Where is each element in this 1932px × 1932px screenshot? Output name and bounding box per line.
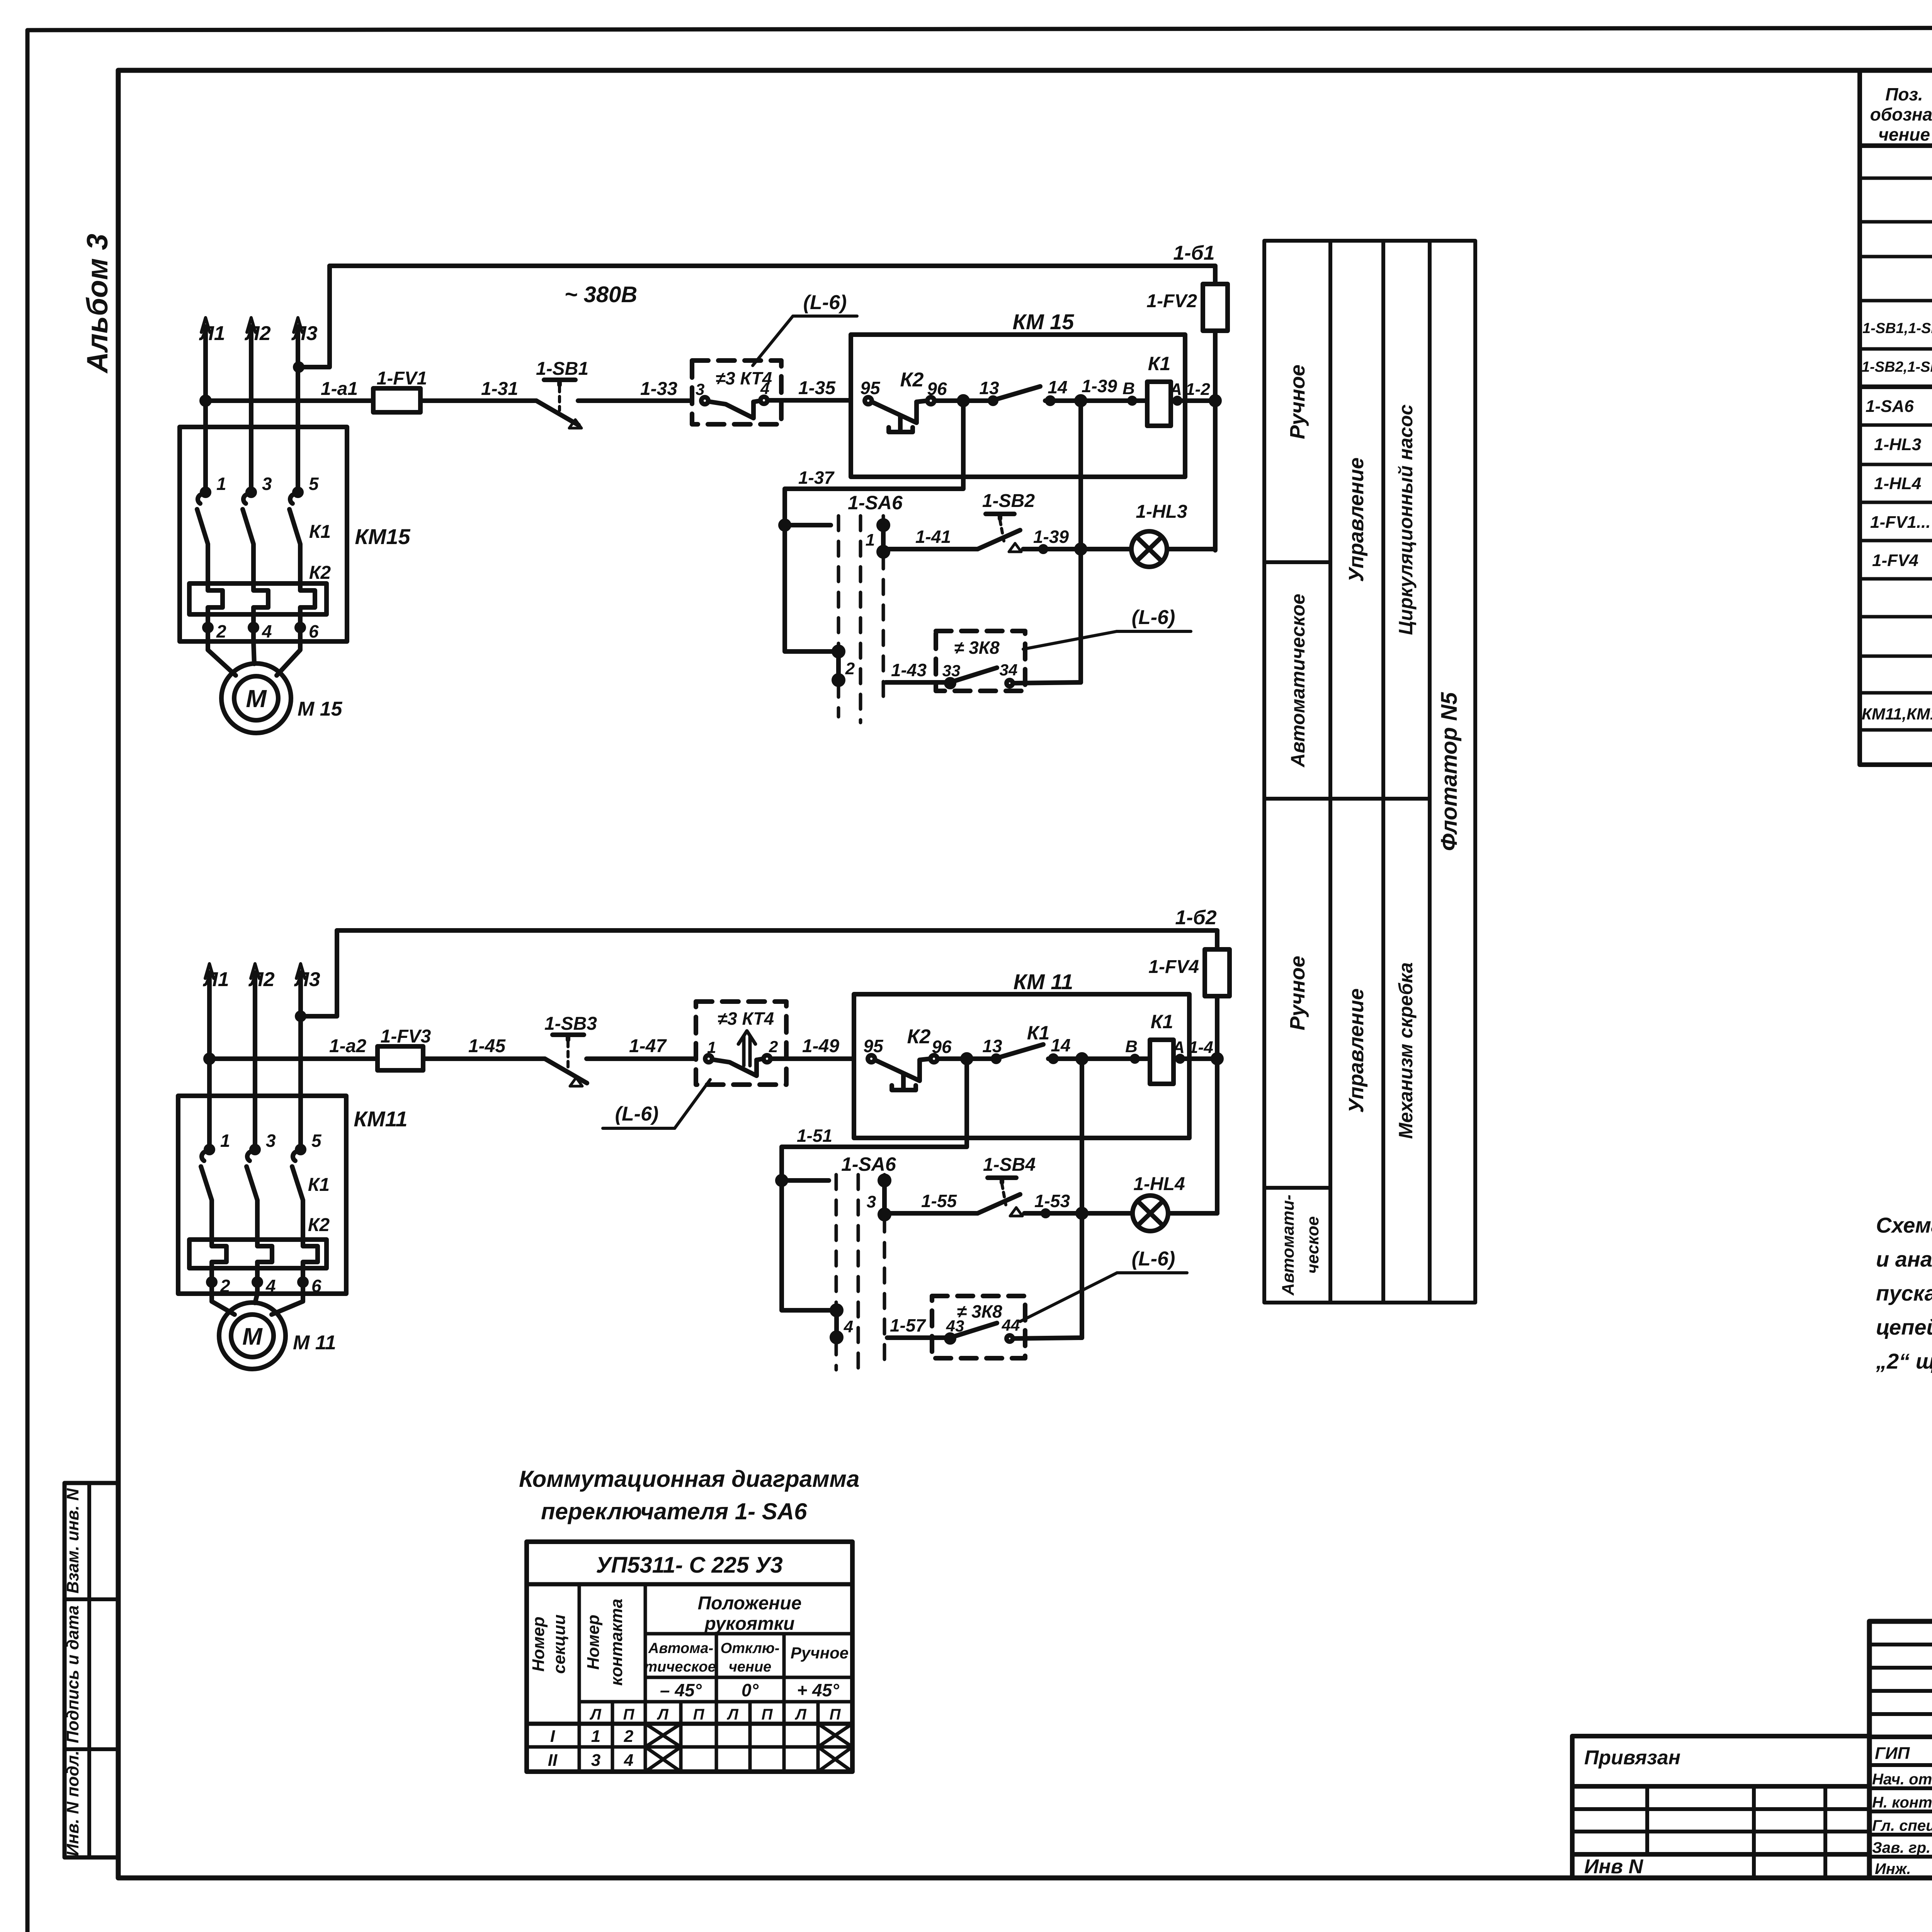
svg-text:А: А (1169, 380, 1182, 399)
main contact pole 5-6 bottom (292, 1146, 304, 1240)
header УП5311-С225У3 (596, 1553, 783, 1578)
label 13 (979, 378, 999, 398)
svg-text:1-4: 1-4 (1189, 1038, 1213, 1057)
label Л2 bottom (248, 968, 275, 991)
svg-text:Ручное: Ручное (1286, 364, 1309, 439)
label 1-33 (640, 379, 677, 399)
svg-text:II: II (548, 1751, 558, 1770)
pole output wires to terminals 2 4 6 (204, 614, 304, 641)
title block main outline (1869, 1621, 1932, 1878)
row 1-HL4 (1874, 471, 1932, 495)
svg-text:Л1: Л1 (199, 322, 225, 345)
comm table grid (527, 1542, 852, 1772)
svg-text:1: 1 (866, 531, 875, 549)
label Циркуляционный насос (1395, 404, 1417, 635)
contact SA6-4 (832, 1306, 841, 1342)
label 1-FV2 (1146, 291, 1197, 311)
role Н контр (1872, 1794, 1932, 1811)
node junction 1-51 drop (963, 1054, 971, 1063)
row 1-FV1 (1870, 509, 1932, 533)
svg-text:М 11: М 11 (293, 1332, 336, 1354)
X mark row II auto (645, 1747, 681, 1772)
svg-text:95: 95 (863, 1036, 884, 1056)
svg-text:Л2: Л2 (248, 968, 275, 991)
svg-text:Инв. N подл.: Инв. N подл. (63, 1750, 82, 1856)
wire 1-51 from box to switch (782, 1059, 967, 1310)
svg-text:14: 14 (1048, 377, 1067, 397)
contact 3K8 dashed box (top) (936, 631, 1025, 691)
pin 5 label (309, 474, 319, 494)
svg-text:13: 13 (982, 1036, 1002, 1056)
svg-text:КМ15: КМ15 (355, 524, 410, 549)
svg-text:чение: чение (1878, 124, 1930, 145)
svg-text:≠3 КТ4: ≠3 КТ4 (718, 1009, 774, 1029)
comm diagram title (519, 1466, 859, 1524)
label Автоматическое (top) (1287, 594, 1309, 768)
fuse 1-FU3 (378, 1046, 534, 1070)
label 1-39 top (1082, 376, 1117, 396)
svg-text:Привязан: Привязан (1584, 1747, 1680, 1769)
svg-text:КМ 15: КМ 15 (1013, 310, 1075, 334)
header -45 (660, 1680, 702, 1700)
header 0 (742, 1680, 759, 1700)
wire 1-41 (883, 549, 978, 552)
NOTE_START (1876, 1213, 1932, 1373)
svg-text:3: 3 (262, 474, 272, 494)
header Ручное (791, 1644, 849, 1662)
svg-text:1-SА6: 1-SА6 (1866, 397, 1914, 416)
svg-text:КМ11: КМ11 (354, 1107, 407, 1131)
label Инв. N подл. (63, 1750, 82, 1856)
pin 2 kt4 (769, 1037, 778, 1056)
svg-text:Л2: Л2 (244, 322, 271, 345)
label 1-SB2 (982, 491, 1035, 511)
node L1 phase line (bottom) (205, 964, 214, 1150)
switch 1-SA6 shaft (bottom) (836, 1175, 884, 1376)
fuse 1-FU2 on right rail (1203, 266, 1228, 550)
fuse 1-FU4 on right rail (1205, 930, 1230, 1213)
label К2 power bottom (308, 1215, 330, 1235)
svg-text:1: 1 (220, 1131, 230, 1151)
pin 4 (760, 379, 769, 398)
contactor KM15 power box (180, 427, 347, 641)
label Автомати-ческое (bottom) (1279, 1195, 1322, 1296)
svg-text:А: А (1172, 1038, 1185, 1057)
svg-text:В: В (1122, 379, 1135, 398)
label Флотатор N5 (1437, 692, 1462, 851)
node stub on 1-51 (777, 1176, 829, 1185)
wire 1-43 (886, 680, 947, 685)
label 1-45 (468, 1036, 506, 1056)
pin 6 label (309, 621, 319, 641)
svg-text:1-49: 1-49 (802, 1036, 839, 1056)
svg-text:ГИП: ГИП (1875, 1744, 1910, 1763)
svg-text:П: П (693, 1706, 705, 1723)
svg-text:Нач. отд.: Нач. отд. (1872, 1771, 1932, 1788)
row II data (548, 1751, 633, 1770)
svg-text:1: 1 (591, 1727, 600, 1746)
label Управление (top) (1345, 457, 1368, 582)
label ~380В (565, 282, 638, 307)
label 14 (1048, 377, 1067, 397)
label К2 power (309, 563, 331, 583)
label 1-2 (1185, 380, 1210, 399)
svg-text:К1: К1 (309, 522, 331, 542)
main contact pole 3-4 bottom (247, 1146, 259, 1240)
svg-text:1-47: 1-47 (629, 1036, 667, 1056)
main contact pole 3-4 (243, 489, 255, 583)
motor M15 (221, 663, 291, 733)
svg-text:1-HL3: 1-HL3 (1136, 502, 1187, 522)
role ГИП (1875, 1744, 1910, 1763)
svg-text:П: П (830, 1706, 841, 1723)
node L2 phase line (bottom) (251, 964, 259, 1150)
label Ручное (top) (1286, 364, 1309, 439)
pin 1 kt4 (707, 1038, 716, 1056)
svg-text:1-2: 1-2 (1185, 380, 1210, 399)
label 1-43 (891, 660, 927, 680)
svg-text:13: 13 (979, 378, 999, 398)
svg-text:Номер: Номер (584, 1615, 603, 1670)
svg-text:М 15: М 15 (298, 698, 343, 720)
note text line 2 (1876, 1247, 1932, 1271)
label #3КТ4 bottom (718, 1009, 774, 1029)
svg-text:1-HL4: 1-HL4 (1874, 474, 1921, 493)
header Автоматическое (644, 1640, 716, 1675)
svg-text:Положение: Положение (698, 1593, 802, 1614)
svg-text:Инж.: Инж. (1875, 1861, 1911, 1878)
svg-text:5: 5 (309, 474, 319, 494)
label Л2 (244, 322, 271, 345)
contact K8 33-34 (946, 668, 1081, 687)
svg-text:Л: Л (589, 1706, 602, 1723)
contact K1 13-14 (990, 386, 1147, 404)
svg-text:Автома-: Автома- (648, 1640, 713, 1656)
TITLEBLOCK_START (1572, 1621, 1932, 1932)
label К1 over blade (1027, 1022, 1050, 1044)
svg-text:1-FV1: 1-FV1 (377, 368, 427, 389)
svg-text:тическое: тическое (644, 1659, 716, 1675)
label 1-FV3 (381, 1026, 431, 1047)
svg-text:1-SB2,1-SB4: 1-SB2,1-SB4 (1862, 359, 1932, 375)
node L3 phase line (294, 318, 302, 492)
node right rail junction (1211, 396, 1219, 405)
X mark row I manual (818, 1724, 852, 1747)
row 1-SA6 (1866, 392, 1932, 417)
node L3 phase line (bottom) (296, 964, 305, 1150)
time arrow symbol (738, 1031, 755, 1066)
label (L-6) kt4 top (803, 291, 847, 314)
label (L-6) k8 top (1132, 606, 1175, 629)
label #3К8 bottom (957, 1301, 1002, 1321)
contact KT4 blade (top) (701, 397, 851, 418)
label Альбом 3 (81, 234, 114, 374)
label 1-35 (798, 378, 836, 398)
row 1-FV4 (1872, 549, 1932, 572)
label 1-47 (629, 1036, 667, 1056)
label М motor bottom (242, 1323, 263, 1350)
svg-text:1-а1: 1-а1 (321, 379, 358, 399)
svg-text:1-SА6: 1-SА6 (848, 492, 903, 514)
svg-text:Схема управления выполнена: Схема управления выполнена для одного фл… (1876, 1213, 1932, 1237)
label В (1122, 379, 1135, 398)
label 1-б1 (1173, 242, 1214, 264)
svg-text:2: 2 (216, 621, 226, 641)
label КМ15 (1013, 310, 1075, 334)
svg-text:Л1: Л1 (202, 968, 229, 991)
svg-text:Номер: Номер (529, 1617, 548, 1672)
TOPCIRCUIT_START (180, 242, 1228, 733)
label 1-HL4 (1133, 1174, 1185, 1194)
pin 44 (1002, 1316, 1020, 1334)
node lamp rail junction (bottom) (1078, 1054, 1086, 1063)
node junction 1-37 drop (959, 396, 968, 405)
label 1-SА6 bottom (841, 1153, 896, 1175)
label 1-57 (890, 1315, 926, 1335)
svg-text:Гл. спец.: Гл. спец. (1872, 1817, 1932, 1834)
pointer L-6 to KT4 (bottom) (603, 1080, 710, 1128)
role Инж (1875, 1861, 1911, 1878)
svg-text:3: 3 (266, 1131, 276, 1151)
svg-text:6: 6 (309, 621, 319, 641)
label (L-6) kt4 bottom (615, 1103, 659, 1125)
lamp 1-HL4 (1133, 1196, 1217, 1231)
svg-text:1-33: 1-33 (640, 379, 677, 399)
wire 1-37 from box to switch (785, 401, 963, 651)
svg-text:Н. контр.: Н. контр. (1872, 1794, 1932, 1811)
svg-text:К1: К1 (1148, 353, 1171, 374)
svg-text:Управление: Управление (1345, 988, 1368, 1113)
pin 4 label (262, 621, 272, 641)
pin 3 (696, 380, 704, 398)
label #3КТ4 (716, 368, 772, 388)
wire jog from bus to L3 (295, 266, 330, 371)
svg-text:3: 3 (591, 1751, 600, 1770)
svg-text:4: 4 (265, 1276, 276, 1296)
label 1-37 (798, 468, 835, 488)
svg-text:34: 34 (1000, 661, 1018, 679)
svg-text:Л3: Л3 (291, 322, 318, 345)
note text line 3 (1876, 1281, 1932, 1305)
contact K8 43-44 (946, 1323, 1082, 1342)
svg-text:1-41: 1-41 (915, 527, 951, 547)
label 1-SА6 (848, 492, 903, 514)
contact SA6-2 (834, 647, 843, 685)
svg-text:33: 33 (942, 662, 961, 680)
label 1-SB3 (544, 1014, 597, 1034)
svg-text:Ручное: Ручное (791, 1644, 849, 1662)
label 1-55 (921, 1191, 957, 1211)
contact SA6-3 (880, 1176, 889, 1219)
row 1-HL3 (1874, 430, 1932, 456)
label К2 bottom (907, 1026, 931, 1048)
fuse 1-FU1 (373, 388, 526, 412)
thermal overload block bottom (189, 1240, 327, 1268)
contactor KM11 control box (854, 994, 1189, 1138)
note text line 4 (1876, 1315, 1932, 1339)
svg-text:95: 95 (860, 378, 881, 398)
pin 2 (845, 659, 855, 678)
svg-text:1-43: 1-43 (891, 660, 927, 680)
pushbutton 1-SB2 (978, 514, 1081, 552)
svg-text:I: I (550, 1727, 555, 1746)
svg-text:Управление: Управление (1345, 457, 1368, 582)
pin 3 label (262, 474, 272, 494)
label 1-51 (797, 1126, 832, 1146)
svg-text:2: 2 (845, 659, 855, 678)
pointer L-6 to KT4 (top) (753, 316, 857, 366)
svg-text:Подпись и дата: Подпись и дата (63, 1605, 82, 1743)
svg-text:1-SB2: 1-SB2 (982, 491, 1035, 511)
node lamp line junction (bottom) (1078, 1209, 1133, 1218)
pin 2 label (216, 621, 226, 641)
BOTCIRCUIT_START (178, 906, 1230, 1376)
svg-text:М: М (242, 1323, 263, 1350)
svg-text:1-SB1,1-SB3: 1-SB1,1-SB3 (1862, 320, 1932, 337)
wire 1-b2 top bus (337, 928, 1217, 933)
svg-text:Инв N: Инв N (1584, 1855, 1644, 1878)
motor feed wires (208, 641, 300, 675)
pin 34 (1000, 661, 1018, 679)
svg-text:~ 380В: ~ 380В (565, 282, 638, 307)
label 95 bottom (863, 1036, 884, 1056)
svg-text:Зав. гр.: Зав. гр. (1872, 1839, 1930, 1856)
svg-text:цепей и обозначения аппарат: цепей и обозначения аппаратуры индекс „1… (1876, 1315, 1932, 1339)
label КМ11 (1014, 969, 1073, 994)
wire 1-55 (884, 1213, 978, 1214)
svg-text:К2: К2 (309, 563, 331, 583)
svg-text:переключателя 1- SА6: переключателя 1- SА6 (541, 1498, 807, 1524)
label Инв N (1584, 1855, 1644, 1878)
svg-text:14: 14 (1051, 1035, 1070, 1055)
label М motor top (246, 685, 267, 713)
svg-text:Ручное: Ручное (1286, 956, 1309, 1030)
svg-text:„2“ щита АS2 на АS3: „2“ щита АS2 на АS3 (1876, 1349, 1932, 1373)
node L1 phase line (201, 318, 210, 492)
svg-text:1-HL3: 1-HL3 (1874, 435, 1921, 454)
svg-text:1-FV2: 1-FV2 (1146, 291, 1197, 311)
contact K2 95-96 with reset head (bottom) (868, 1055, 994, 1090)
mode table grid (1264, 241, 1475, 1303)
svg-text:1-45: 1-45 (468, 1036, 506, 1056)
svg-text:1-51: 1-51 (797, 1126, 832, 1146)
svg-text:1-35: 1-35 (798, 378, 836, 398)
svg-text:2: 2 (624, 1727, 634, 1746)
svg-text:Л: Л (794, 1706, 807, 1723)
label К1 power (309, 522, 331, 542)
COMMTABLE_START (519, 1466, 859, 1772)
label А bottom (1172, 1038, 1185, 1057)
role Нач отд (1872, 1771, 1932, 1788)
role Зав гр (1872, 1839, 1930, 1856)
wire control main line (202, 397, 373, 405)
label К2 (900, 369, 924, 391)
label 14 bottom (1051, 1035, 1070, 1055)
svg-text:1-57: 1-57 (890, 1315, 926, 1335)
node stub on 1-37 (781, 521, 831, 529)
svg-text:К2: К2 (900, 369, 924, 391)
svg-text:Коммутационная диаграмма: Коммутационная диаграмма (519, 1466, 859, 1492)
pushbutton 1-SB4 (978, 1178, 1082, 1216)
header Положение рукоятки (698, 1593, 802, 1634)
pin 33 (942, 662, 961, 680)
label К1 power bottom (308, 1175, 330, 1195)
svg-text:(L-6): (L-6) (1132, 1248, 1175, 1270)
svg-text:и аналогична для другого с: и аналогична для другого с заменой обозн… (1876, 1247, 1932, 1271)
contact 3K8 dashed box (bottom) (932, 1296, 1025, 1358)
label 1-HL3 (1136, 502, 1187, 522)
label Л3 (291, 322, 318, 345)
header Номер секции (529, 1614, 569, 1674)
X mark row II manual (818, 1747, 852, 1772)
motor feed wires bottom (212, 1294, 303, 1315)
svg-text:ческое: ческое (1303, 1216, 1322, 1274)
svg-text:1-FV1...: 1-FV1... (1870, 513, 1931, 532)
contact K1 13-14 (bottom) (993, 1044, 1150, 1062)
svg-text:пускателей с 11 на 16 и с: пускателей с 11 на 16 и с 15 на 20, в ма… (1876, 1281, 1932, 1305)
svg-text:4: 4 (262, 621, 272, 641)
svg-text:1-а2: 1-а2 (329, 1036, 366, 1056)
pushbutton 1-SB1 (526, 380, 692, 428)
label 1-SB1 (536, 359, 588, 379)
svg-text:2: 2 (769, 1037, 778, 1056)
pin 4 label bottom (265, 1276, 276, 1296)
left attach block (1572, 1736, 1869, 1878)
svg-text:Взам. инв. N: Взам. инв. N (63, 1488, 82, 1594)
svg-text:М: М (246, 685, 267, 713)
node lamp line junction (1077, 545, 1131, 553)
label 1-FV1 (377, 368, 427, 389)
pole outputs terminals 2 4 6 bottom (208, 1268, 306, 1294)
node right rail junction (bottom) (1213, 1054, 1221, 1063)
svg-text:Л3: Л3 (294, 968, 320, 991)
svg-text:К1: К1 (308, 1175, 330, 1195)
svg-text:К2: К2 (308, 1215, 330, 1235)
label 1-б2 (1175, 906, 1216, 929)
pointer L-6 to K8 (top) (1023, 631, 1191, 649)
label Л1 (199, 322, 225, 345)
contactor KM11 power box (178, 1096, 346, 1294)
label 1-SB4 (983, 1155, 1036, 1175)
label КМ11 power (354, 1107, 407, 1131)
svg-text:44: 44 (1002, 1316, 1020, 1334)
svg-text:КМ 11: КМ 11 (1014, 969, 1073, 994)
row 1-SB2 1-SB4 (1862, 355, 1932, 379)
svg-text:Л: Л (656, 1706, 669, 1723)
svg-text:Циркуляционный насос: Циркуляционный насос (1395, 404, 1417, 635)
svg-text:1-HL4: 1-HL4 (1133, 1174, 1185, 1194)
label Механизм скребка (1395, 962, 1417, 1139)
svg-text:1-39: 1-39 (1033, 527, 1069, 547)
label 1-53 (1034, 1191, 1070, 1211)
label Взам. инв. N (63, 1488, 82, 1594)
label Л1 bottom (202, 968, 229, 991)
contact K2 95-96 with reset head (865, 397, 991, 432)
switch 1-SA6 shaft (top) (838, 516, 883, 723)
label (L-6) k8 bottom (1132, 1248, 1175, 1270)
pin 43 (946, 1317, 964, 1335)
svg-text:Альбом 3: Альбом 3 (81, 234, 114, 374)
label К1 coil (1148, 353, 1171, 374)
svg-text:секции: секции (550, 1614, 569, 1674)
svg-text:Механизм скребка: Механизм скребка (1395, 962, 1417, 1139)
label Л3 bottom (294, 968, 320, 991)
svg-text:1-б2: 1-б2 (1175, 906, 1216, 929)
row I data (550, 1727, 634, 1746)
label 1-4 (1189, 1038, 1213, 1057)
svg-text:Флотатор N5: Флотатор N5 (1437, 692, 1462, 851)
parts table grid (1860, 70, 1932, 765)
